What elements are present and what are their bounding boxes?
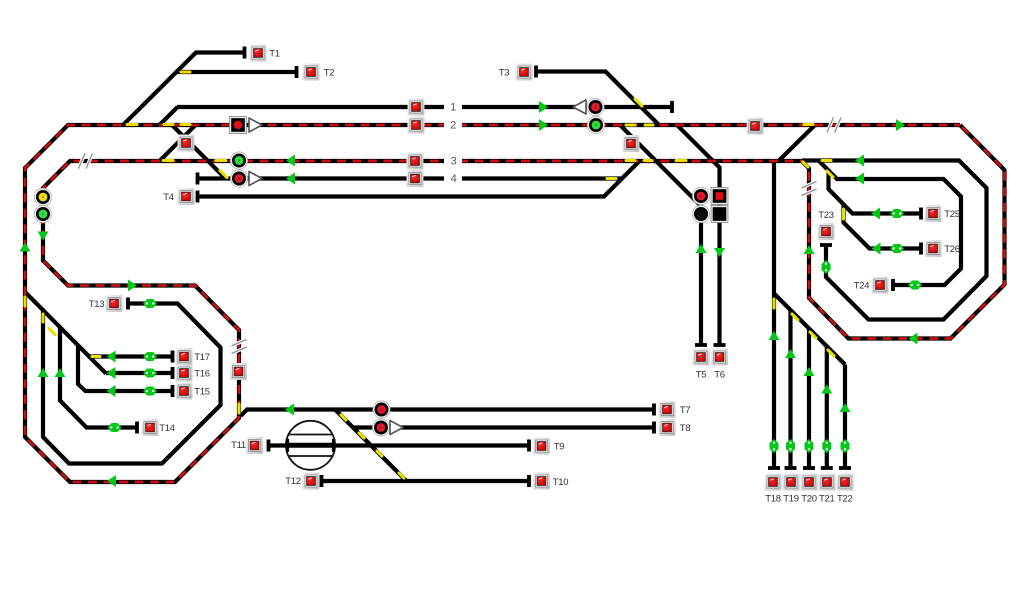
svg-text:T12: T12 [285, 476, 300, 487]
svg-text:T19: T19 [783, 494, 798, 505]
svg-text:T23: T23 [818, 210, 833, 221]
svg-text:T11: T11 [231, 440, 246, 451]
svg-text:T26: T26 [944, 244, 959, 255]
svg-text:T1: T1 [269, 48, 280, 59]
svg-text:T6: T6 [714, 369, 725, 380]
svg-text:3: 3 [451, 155, 457, 167]
svg-text:T3: T3 [499, 67, 510, 78]
svg-text:T25: T25 [944, 209, 959, 220]
svg-text:T9: T9 [554, 442, 565, 453]
svg-text:T18: T18 [765, 494, 780, 505]
svg-text:T16: T16 [194, 368, 209, 379]
svg-text:T7: T7 [680, 405, 691, 416]
svg-text:4: 4 [451, 173, 457, 185]
svg-text:T2: T2 [324, 67, 335, 78]
svg-text:T20: T20 [801, 494, 816, 505]
svg-text:T15: T15 [194, 386, 209, 397]
svg-text:T17: T17 [194, 352, 209, 363]
svg-text:T4: T4 [163, 192, 174, 203]
svg-text:T13: T13 [89, 299, 104, 310]
svg-text:1: 1 [450, 101, 456, 113]
svg-text:T5: T5 [696, 369, 707, 380]
svg-text:T10: T10 [553, 477, 568, 488]
svg-text:T14: T14 [159, 423, 174, 434]
svg-text:T21: T21 [819, 494, 834, 505]
svg-text:T8: T8 [680, 423, 691, 434]
svg-text:T22: T22 [837, 494, 852, 505]
svg-text:2: 2 [450, 119, 456, 131]
svg-text:T24: T24 [854, 281, 869, 292]
